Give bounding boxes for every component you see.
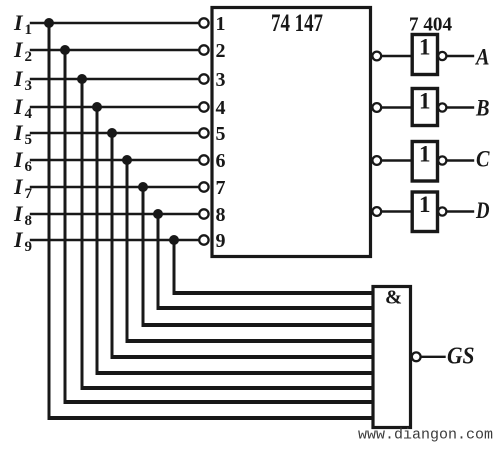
svg-text:6: 6 bbox=[216, 150, 226, 172]
svg-text:7 404: 7 404 bbox=[409, 14, 452, 36]
svg-text:I: I bbox=[13, 120, 24, 145]
svg-text:&: & bbox=[385, 287, 402, 309]
svg-text:2: 2 bbox=[25, 49, 33, 65]
svg-text:I: I bbox=[13, 227, 24, 252]
svg-text:I: I bbox=[13, 10, 24, 35]
svg-text:C: C bbox=[476, 147, 490, 172]
svg-text:7: 7 bbox=[25, 186, 33, 202]
svg-text:7: 7 bbox=[216, 177, 226, 199]
svg-text:D: D bbox=[475, 198, 490, 223]
svg-text:A: A bbox=[474, 45, 489, 70]
svg-text:I: I bbox=[13, 174, 24, 199]
svg-text:4: 4 bbox=[25, 106, 33, 122]
svg-text:9: 9 bbox=[216, 230, 226, 252]
svg-text:3: 3 bbox=[25, 78, 33, 94]
svg-text:2: 2 bbox=[216, 40, 226, 62]
svg-text:www.diangon.com: www.diangon.com bbox=[358, 427, 493, 444]
svg-text:I: I bbox=[13, 201, 24, 226]
svg-text:1: 1 bbox=[419, 142, 431, 167]
svg-text:1: 1 bbox=[25, 22, 33, 38]
svg-text:1: 1 bbox=[419, 35, 431, 60]
svg-text:B: B bbox=[475, 96, 489, 121]
svg-text:6: 6 bbox=[25, 159, 33, 175]
svg-text:I: I bbox=[13, 147, 24, 172]
svg-text:9: 9 bbox=[25, 239, 33, 255]
svg-text:I: I bbox=[13, 37, 24, 62]
svg-text:GS: GS bbox=[447, 344, 475, 370]
svg-text:1: 1 bbox=[216, 13, 226, 35]
svg-text:I: I bbox=[13, 66, 24, 91]
svg-text:8: 8 bbox=[216, 204, 226, 226]
svg-text:5: 5 bbox=[216, 123, 226, 145]
svg-text:4: 4 bbox=[216, 97, 226, 119]
svg-text:3: 3 bbox=[216, 69, 226, 91]
svg-text:74 147: 74 147 bbox=[271, 10, 323, 37]
svg-text:8: 8 bbox=[25, 213, 33, 229]
svg-text:1: 1 bbox=[419, 89, 431, 114]
svg-text:5: 5 bbox=[25, 132, 33, 148]
svg-text:I: I bbox=[13, 94, 24, 119]
svg-text:1: 1 bbox=[419, 192, 431, 217]
